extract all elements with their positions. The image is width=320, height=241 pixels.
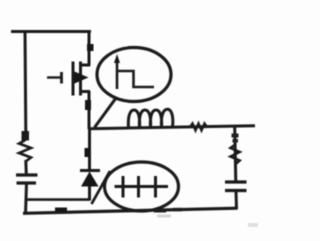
inductor L1 bbox=[128, 109, 173, 128]
wire mid horizontal (switch node to output) bbox=[88, 126, 255, 129]
resistor ESR zigzag bbox=[230, 145, 240, 165]
resistor ESR label blob bbox=[232, 134, 239, 138]
zoom bubble ellipse 1 (gate waveform) bbox=[97, 48, 171, 102]
node diode label blob bbox=[85, 148, 91, 157]
waveform ticks line bbox=[115, 185, 169, 188]
waveform axis with arrow bbox=[116, 59, 119, 89]
node label blob bottom-left bbox=[55, 208, 67, 212]
wire diode return line bbox=[25, 198, 90, 201]
wire right branch vertical lower bbox=[235, 191, 239, 209]
wire right branch vertical upper bbox=[235, 126, 236, 182]
wire left rail upper bbox=[24, 30, 28, 132]
zoom bubble ellipse 2 (current pulses) bbox=[105, 162, 179, 211]
wire MOSFET drain vertical bbox=[88, 30, 91, 66]
wire left rail lower bbox=[26, 184, 27, 215]
wire MOSFET source vertical bbox=[88, 91, 91, 129]
wire bottom rail bbox=[23, 208, 238, 213]
node S (source label blob) bbox=[85, 100, 91, 110]
faint label smudge below rail bbox=[157, 215, 171, 218]
node label blobs under ellipse 2 bbox=[154, 209, 166, 213]
callout tail to ellipse 2 bbox=[92, 171, 111, 204]
transistor Q1 MOSFET bbox=[47, 62, 90, 96]
faint smudge bottom right bbox=[248, 223, 258, 227]
wire diode branch vertical bbox=[88, 128, 91, 170]
resistor DCR (small squiggle on mid line) bbox=[190, 123, 207, 130]
wire left rail mid bbox=[24, 160, 28, 175]
tick 1 bbox=[122, 176, 125, 198]
wire top rail bbox=[11, 30, 91, 33]
callout tail to ellipse 1 bbox=[95, 98, 117, 128]
tick 3 bbox=[154, 176, 157, 198]
diode D1 bbox=[80, 171, 100, 201]
tick 2 bbox=[137, 176, 140, 198]
resistor R source (left rail squiggle) bbox=[22, 131, 30, 141]
capacitor C2 (output cap) bbox=[225, 180, 247, 183]
waveform step bbox=[117, 71, 154, 87]
node D (drain label blob) bbox=[87, 44, 94, 51]
capacitor C1 (input cap) bbox=[16, 173, 38, 176]
